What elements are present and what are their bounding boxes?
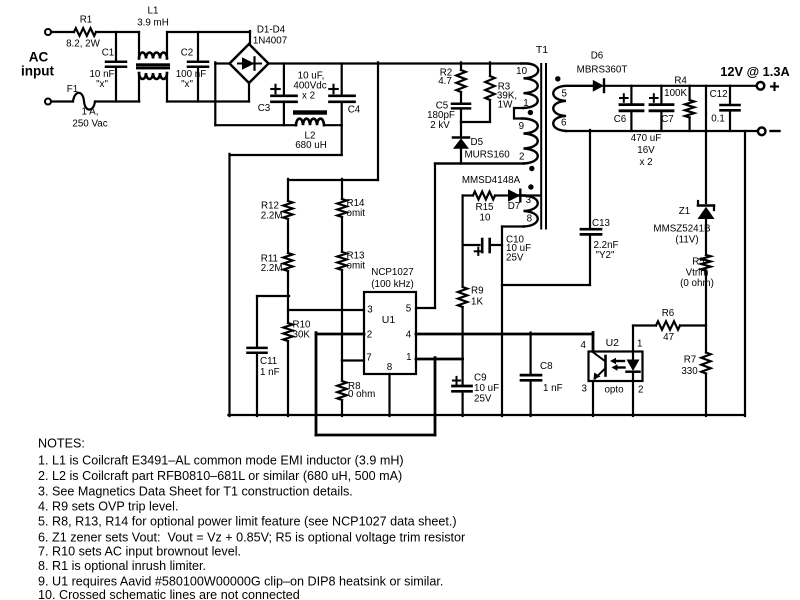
capacitor C4 [329,64,361,126]
svg-text:C13: C13 [592,218,611,229]
svg-text:(11V): (11V) [675,235,698,246]
wire: L2/C4 return down to ground rail [230,125,342,416]
svg-text:12V @ 1.3A: 12V @ 1.3A [720,64,789,79]
wire: T1 pin2 exit to drain line [435,162,524,164]
svg-text:10 uF: 10 uF [474,383,499,394]
wire: pin1-pin2 under-rail loop [316,333,435,435]
svg-text:30K: 30K [293,330,311,341]
svg-text:T1: T1 [536,44,548,56]
capacitor C2 [176,32,208,102]
wire: R5 to R6/R7 junction [705,271,707,353]
transformer T1 core [536,44,548,229]
pin label T1-5 [561,88,567,99]
svg-text:10: 10 [516,66,527,77]
svg-text:NCP1027: NCP1027 [371,267,413,278]
transformer T1 primary winding 9-2 [522,119,538,164]
value label: 470uF 16V x2 [631,133,662,168]
wire: T1 pin8 to ground [502,227,524,417]
wire: secondary + line [604,85,756,87]
notes text block [38,437,465,600]
wire: R12 to R11 [287,219,289,253]
pin label T1-9 [519,121,524,132]
svg-text:2: 2 [519,152,524,163]
svg-text:2 kV: 2 kV [430,120,450,131]
svg-text:C2: C2 [181,48,194,59]
svg-text:1W: 1W [498,100,513,111]
wire: R11 to divider node [287,271,289,323]
svg-text:250 Vac: 250 Vac [72,119,107,130]
svg-text:0.1: 0.1 [711,114,725,125]
svg-text:2.2M: 2.2M [261,211,283,222]
svg-text:D7: D7 [508,201,521,212]
pin label T1-10 [516,66,527,77]
svg-text:L1: L1 [148,6,159,17]
svg-text:U1: U1 [382,314,396,326]
inductor L1 (common-mode choke) [137,6,170,102]
svg-text:MMSD4148A: MMSD4148A [462,175,521,186]
wire: C5/R3 junction [461,121,490,123]
svg-text:MMSZ5241B: MMSZ5241B [653,224,711,235]
svg-text:4: 4 [406,329,412,340]
svg-text:3: 3 [526,195,532,206]
svg-text:10: 10 [480,213,491,224]
wire: R13 down to U1 pin7 line [341,270,343,361]
wire: R15 left to C10 node [462,196,464,246]
transistor U2 phototransistor [593,353,606,417]
svg-text:5: 5 [561,88,567,99]
diode Z1 (zener) [653,201,714,255]
U2 light arrows [610,358,625,371]
resistor R10 [283,320,311,417]
diode D7 [495,189,540,212]
svg-text:NOTES:: NOTES: [38,437,85,451]
svg-text:D1-D4: D1-D4 [257,25,286,36]
svg-text:7: 7 [366,352,371,363]
resistor R7 [681,353,710,417]
node: output + terminal [757,82,778,90]
pin label T1-8 [527,213,533,224]
resistor R3 [485,62,517,122]
pin label U2-4 [581,340,587,351]
svg-text:3. See Magnetics Data Sheet fo: 3. See Magnetics Data Sheet for T1 const… [38,485,353,499]
wire: U1 pin7 [342,359,364,361]
wire: L1 to bridge top vertex [167,31,250,44]
svg-text:8. R1 is optional inrush limit: 8. R1 is optional inrush limiter. [38,559,206,573]
wire: T1 pin1 jog to pin9 [514,108,524,119]
wire: AC neutral to F1 [52,100,73,102]
svg-text:x 2: x 2 [639,157,652,168]
wire: AC neutral to bridge bottom vertex [167,82,249,102]
svg-text:R7: R7 [684,355,697,366]
svg-text:16V: 16V [637,145,655,156]
resistor R8 [337,361,375,417]
wire: U1 pin1 to C9 column [416,358,463,361]
svg-text:"x": "x" [96,79,108,90]
svg-text:4: 4 [581,340,587,351]
resistor R12 [261,179,293,222]
svg-text:MBRS360T: MBRS360T [577,65,628,76]
svg-text:Z1: Z1 [679,206,690,217]
wire: C10 node to R9 [462,245,464,287]
svg-text:47: 47 [663,332,674,343]
capacitor C12 [710,86,740,131]
svg-text:input: input [21,64,54,79]
capacitor C6 [614,86,643,131]
svg-text:R1: R1 [80,15,93,26]
pin label T1-2 [519,152,524,163]
svg-text:8: 8 [387,362,393,373]
transformer T1 primary winding 10-1 [521,64,538,109]
node: AC input neutral terminal [45,99,51,105]
wire: AC line to R1 [52,31,74,33]
svg-text:9. U1 requires Aavid #580100W0: 9. U1 requires Aavid #580100W00000G clip… [38,574,443,588]
wire: DC+ bus [269,62,522,64]
svg-text:C12: C12 [710,89,728,100]
capacitor C10 [463,235,531,264]
svg-text:1: 1 [637,339,642,350]
svg-text:R6: R6 [662,308,675,319]
svg-text:omit: omit [347,208,366,219]
pin label T1-3 [526,195,532,206]
diode D5 [453,122,510,164]
capacitor C3 [258,64,297,126]
svg-text:4. R9 sets OVP trip level.: 4. R9 sets OVP trip level. [38,500,178,514]
capacitor C13 [502,130,619,285]
svg-text:(0 ohm): (0 ohm) [680,278,714,289]
svg-text:2: 2 [638,385,643,396]
node: phase dot pin5 [555,76,560,81]
pin label U1-4 [406,329,412,340]
svg-text:C7: C7 [661,114,674,125]
svg-text:C8: C8 [540,361,553,372]
resistor R1 [66,15,101,50]
wire: U2 pin1 lead [632,326,634,360]
pin label T1-1 [523,98,528,109]
pin label T1-6 [561,118,567,129]
svg-text:F1: F1 [67,84,78,95]
capacitor C11 [248,296,290,416]
wire: drain line [435,162,524,164]
svg-text:10. Crossed schematic lines ar: 10. Crossed schematic lines are not conn… [38,588,300,600]
svg-text:2.2M: 2.2M [261,263,283,274]
pin label U2-2 [638,385,643,396]
svg-text:1 nF: 1 nF [543,383,563,394]
svg-text:25V: 25V [506,253,524,264]
resistor R13 [337,251,365,272]
svg-text:"Y2": "Y2" [596,250,615,261]
bridge rectifier D1-D4 [230,25,288,84]
resistor R14 [337,179,365,219]
node: phase dot pin3 [528,184,533,189]
svg-text:"x": "x" [181,79,193,90]
wire: DC+ bus to divider feed [288,62,378,180]
wire: U1 pin4 VCC line [416,333,593,336]
svg-text:U2: U2 [606,337,620,349]
svg-text:5: 5 [406,304,412,315]
svg-text:7. R10 sets AC input brownout: 7. R10 sets AC input brownout level. [38,545,241,559]
svg-text:C6: C6 [614,114,627,125]
node: phase dot pin2 [529,166,534,171]
svg-text:3.9 mH: 3.9 mH [137,18,169,29]
pin label U1-7 [366,352,371,363]
wire: R1 to L1 top [96,31,139,33]
pin label U1-8 [387,362,393,373]
capacitor C5 [427,92,470,131]
svg-text:C11: C11 [260,356,277,367]
label MMSD4148A [462,175,521,186]
svg-text:R5: R5 [692,257,705,268]
node: phase dot pin1 [528,110,533,115]
svg-text:8: 8 [527,213,533,224]
fuse F1 [67,84,108,130]
wire: bridge DC- to C3/L2 [215,62,296,125]
wire: U1 pin2 [316,333,364,336]
svg-text:25V: 25V [474,394,492,405]
resistor R4 [664,76,694,132]
transformer T1 secondary winding 5-6 [553,86,593,131]
label: 12V @ 1.3A [720,64,789,79]
pin label U1-5 [406,304,412,315]
svg-text:0 ohm: 0 ohm [348,389,375,400]
svg-text:9: 9 [519,121,524,132]
pin label U2-3 [582,384,588,395]
wire: U1 pin3 to divider node [288,309,364,311]
capacitor C9 [453,334,500,416]
transistor U2 (optocoupler) [589,337,643,396]
svg-text:R15: R15 [476,202,495,213]
svg-text:330: 330 [681,366,698,377]
svg-text:1. L1 is Coilcraft E3491–AL co: 1. L1 is Coilcraft E3491–AL common mode … [38,454,404,468]
svg-text:R9: R9 [471,286,484,297]
svg-text:2. L2 is Coilcraft part RFB081: 2. L2 is Coilcraft part RFB0810–681L or … [38,469,402,483]
resistor R2 [438,62,466,92]
inductor L2 [294,111,327,151]
wire: primary/secondary ground rail [228,414,745,416]
svg-text:D5: D5 [471,137,484,148]
pin label U1-3 [367,305,373,316]
svg-text:8.2, 2W: 8.2, 2W [66,39,101,50]
svg-text:1 nF: 1 nF [260,367,280,378]
diode U2 LED [627,360,640,417]
svg-text:5. R8, R13, R14 for optional p: 5. R8, R13, R14 for optional power limit… [38,515,457,529]
value label: 10uF 400Vdc x2 [293,71,326,102]
svg-text:C3: C3 [258,103,271,114]
wire: F1 to L1 bottom [95,100,139,102]
wire: U1 pin8 to ground [388,374,390,416]
resistor R5 [680,255,714,289]
wire: U2 pin4 lead [592,333,595,352]
svg-text:C9: C9 [474,373,487,384]
resistor R9 [458,286,484,335]
svg-text:3: 3 [582,384,588,395]
node: output - terminal [758,128,780,136]
svg-text:3: 3 [367,305,373,316]
svg-text:x 2: x 2 [302,91,315,102]
svg-text:opto: opto [604,385,624,396]
svg-text:1N4007: 1N4007 [253,36,287,47]
wire: + line down to Z1 [705,86,707,203]
resistor R15 [463,192,495,224]
svg-text:1K: 1K [471,297,483,308]
svg-text:C4: C4 [348,105,361,116]
op-amp U1 (NCP1027 controller) [364,267,416,374]
svg-text:1: 1 [406,352,411,363]
svg-text:MURS160: MURS160 [465,150,511,161]
pin label U2-1 [637,339,642,350]
svg-text:680 uH: 680 uH [295,140,327,151]
svg-text:1 A,: 1 A, [82,107,99,118]
svg-text:C1: C1 [102,48,115,59]
capacitor C1 [89,32,126,102]
svg-text:4.7: 4.7 [438,76,452,87]
svg-text:AC: AC [29,50,49,65]
wire: T1 pin6 exit to - line [566,130,757,132]
svg-text:(100 kHz): (100 kHz) [371,279,413,290]
capacitor C8 [521,333,563,417]
svg-text:D6: D6 [591,51,604,62]
capacitor C7 [650,86,674,131]
pin label U1-2 [367,330,372,341]
transformer T1 auxiliary winding 3-8 [519,196,538,227]
svg-text:6. Z1 zener sets Vout: Vout =: 6. Z1 zener sets Vout: Vout = Vz + 0.85V… [38,530,465,544]
svg-text:6: 6 [561,118,567,129]
svg-text:2: 2 [367,330,372,341]
svg-text:omit: omit [347,261,366,272]
svg-text:470 uF: 470 uF [631,133,662,144]
wire: output - down to rail [744,131,746,416]
node: AC input line terminal [21,29,54,79]
resistor R11 [261,253,293,274]
svg-text:100K: 100K [664,88,687,99]
svg-text:R4: R4 [674,76,687,87]
resistor R6 [633,308,706,343]
diode D6 [577,51,628,93]
wire: R14 to R13 [341,217,343,252]
pin label U1-1 [406,352,411,363]
wire: U1 pin5 to drain node [416,164,435,309]
